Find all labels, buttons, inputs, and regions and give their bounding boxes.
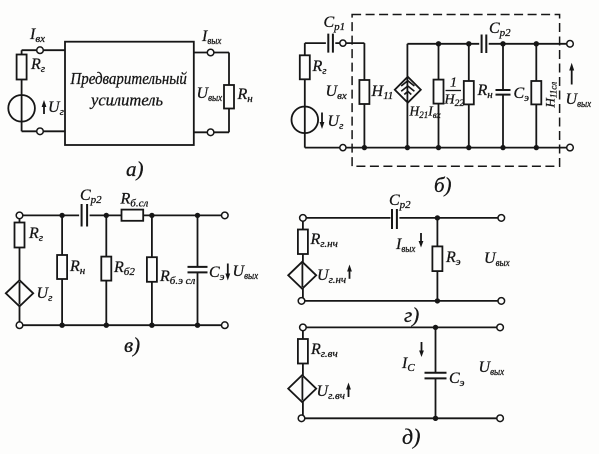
svg-text:Iвых: Iвых (201, 28, 221, 47)
current source chevrons (b) (401, 81, 414, 95)
terminal bottom-right (g) (498, 298, 505, 305)
terminal top-right (d) (497, 324, 504, 331)
svg-text:H11сл: H11сл (543, 82, 559, 109)
terminal bottom-right (d) (497, 415, 504, 422)
dashed box (b) (352, 15, 559, 167)
svg-text:Предварительный: Предварительный (70, 69, 188, 88)
terminal top-left (d) (300, 324, 307, 331)
capacitor Ce rail top (b) (502, 44, 504, 90)
source Ug circle (b) (292, 107, 319, 134)
bottom wire (g) (302, 300, 499, 302)
svg-text:Uвых: Uвых (484, 250, 510, 269)
svg-text:Rг.нч: Rг.нч (310, 231, 338, 250)
left rail (g) (302, 218, 304, 301)
resistor H11sl rail (b) (535, 44, 537, 148)
wire output top (a) (194, 52, 229, 54)
svg-text:б): б) (434, 173, 452, 197)
svg-text:1: 1 (450, 76, 457, 91)
junction dot top (d) (433, 325, 438, 330)
resistor Rg (a) (17, 55, 27, 80)
wire bottom rail (b) (305, 147, 567, 149)
resistor Rn rail (v) (61, 215, 63, 325)
terminal output bottom (a) (207, 129, 214, 136)
current source rail (b) (406, 44, 408, 148)
wire input top (a) (22, 49, 65, 51)
capacitor Cp2 (v) (82, 204, 88, 227)
capacitor Ce (b) (496, 90, 511, 95)
arrow down Ivyx (g) (420, 233, 422, 244)
svg-text:Rб.э сл: Rб.э сл (159, 268, 196, 287)
svg-text:Cр2: Cр2 (80, 187, 102, 206)
svg-text:Uг: Uг (328, 113, 345, 132)
wire input bottom (a) (22, 130, 65, 132)
svg-text:Uг: Uг (37, 285, 54, 304)
svg-text:Cр1: Cр1 (324, 14, 346, 33)
resistor Re rail (g) (436, 218, 438, 301)
current source diamond H21Ivx (b) (395, 77, 421, 103)
resistor Rb2 (v) (101, 257, 111, 281)
resistor Re (g) (432, 246, 442, 271)
source Ug circle (a) (8, 95, 35, 122)
svg-text:Uг.нч: Uг.нч (317, 267, 346, 286)
top wire right (g) (399, 217, 498, 219)
svg-text:Rэ: Rэ (445, 249, 461, 268)
resistor H11 (b) (359, 80, 369, 104)
svg-text:Uвых: Uвых (233, 263, 259, 282)
svg-text:Uг: Uг (48, 99, 65, 118)
terminal output top (a) (207, 49, 214, 56)
top wire segment 3 (v) (143, 214, 225, 216)
arrow down Ug (b) (321, 113, 323, 125)
wire output bottom (a) (194, 131, 229, 133)
svg-text:Rн: Rн (477, 82, 494, 101)
arrow up Ug (a) (43, 103, 45, 114)
junction dots bottom wire (v) (59, 323, 64, 328)
junction dot top (g) (435, 215, 440, 220)
wire input top (b) (305, 42, 326, 44)
resistor Rn rail (b) (468, 44, 470, 148)
capacitor Ce rail top (v) (197, 215, 199, 267)
junction dots top wire (b) (436, 41, 441, 46)
svg-text:Rн: Rн (69, 258, 86, 277)
resistor Rn (v) (57, 255, 67, 279)
svg-text:Uвых: Uвых (566, 91, 592, 110)
resistor 1/H22 (b) (434, 80, 444, 104)
svg-text:H22: H22 (444, 93, 465, 110)
terminal bottom-left (v) (16, 322, 23, 329)
junction dot bottom (d) (433, 416, 438, 421)
arrow down Ic (d) (421, 342, 423, 353)
junction dots top wire (v) (59, 213, 64, 218)
terminal top-right (v) (222, 212, 229, 219)
terminal top-left (v) (16, 212, 23, 219)
capacitor Ce rail bottom (d) (435, 378, 437, 418)
svg-text:Uвых: Uвых (479, 359, 505, 378)
capacitor Cp2 (g) (392, 209, 397, 229)
left rail (d) (302, 327, 304, 418)
terminal input bottom (b) (340, 145, 346, 151)
top wire (d) (303, 326, 497, 328)
svg-text:Rг: Rг (312, 58, 328, 77)
svg-text:IC: IC (401, 355, 415, 374)
inner top wire left of Cp2 (b) (407, 43, 479, 45)
capacitor Ce (d) (425, 373, 447, 379)
resistor Rb2 rail (v) (105, 215, 107, 325)
arrow up Uvyx (b) (571, 67, 573, 85)
resistor Rb.e.sl rail (v) (151, 215, 153, 325)
wire right rail (a) (228, 53, 230, 133)
source Ug.vch diamond (d) (288, 375, 316, 402)
terminal input bottom (a) (37, 128, 44, 135)
svg-text:Rб2: Rб2 (113, 259, 135, 278)
capacitor Cp1 (b) (328, 34, 333, 53)
inner top wire right of Cp2 (b) (489, 43, 567, 45)
bottom wire (v) (20, 324, 225, 326)
resistor H11 rail (b) (363, 43, 365, 148)
terminal bottom-left (d) (298, 415, 305, 422)
source Ug diamond (v) (6, 280, 33, 306)
wire left rail (b) (304, 43, 306, 148)
top wire segment 1 (v) (20, 214, 80, 216)
svg-text:H11: H11 (371, 83, 394, 102)
svg-text:Cэ: Cэ (514, 85, 530, 104)
resistor Rg (v) (15, 223, 25, 248)
svg-text:Iвх: Iвх (29, 26, 45, 45)
amplifier box (a) (65, 42, 194, 145)
terminal bottom-right (v) (222, 322, 229, 329)
wire left rail (a) (21, 50, 23, 131)
terminal input top (b) (340, 40, 346, 46)
resistor Rg (b) (300, 55, 310, 79)
top wire left (g) (303, 217, 391, 219)
capacitor Ce (v) (188, 267, 208, 273)
svg-text:в): в) (124, 333, 140, 357)
capacitor Ce rail top (d) (435, 327, 437, 372)
svg-text:Uвх: Uвх (326, 83, 347, 102)
svg-text:H21Iвх: H21Iвх (409, 104, 441, 121)
resistor Rn (a) (224, 85, 234, 109)
resistor Rn (b) (464, 81, 474, 104)
resistor Rg.vch (d) (298, 339, 308, 364)
top wire segment 2 (v) (90, 214, 122, 216)
capacitor Ce rail bottom (b) (502, 95, 504, 148)
svg-text:Cр2: Cр2 (489, 20, 511, 39)
svg-text:Uвых: Uвых (197, 85, 223, 104)
terminal bottom-left (g) (298, 298, 305, 305)
svg-text:Rн: Rн (237, 86, 254, 105)
resistor Rb.e.sl (v) (147, 257, 157, 282)
svg-text:Rг.вч: Rг.вч (310, 341, 338, 360)
svg-text:а): а) (126, 157, 144, 181)
arrow up Ug.nch (g) (349, 268, 351, 279)
terminal input top (a) (37, 47, 44, 54)
svg-text:д): д) (402, 424, 420, 449)
svg-text:Cэ: Cэ (209, 264, 225, 283)
svg-text:Iвых: Iвых (395, 236, 415, 255)
resistor 1/H22 rail (b) (438, 44, 440, 148)
arrow down Uvyx (v) (227, 264, 229, 276)
svg-text:Rг: Rг (30, 56, 46, 75)
svg-text:Rг: Rг (28, 225, 44, 244)
resistor Rg.nch (g) (298, 230, 308, 255)
arrow up Ug.vch (d) (348, 386, 350, 397)
svg-text:Cэ: Cэ (449, 370, 465, 389)
svg-text:Rб.сл: Rб.сл (120, 191, 149, 210)
junction dots bottom wire (b) (362, 145, 367, 150)
capacitor Cp2 (b) (482, 35, 487, 54)
terminal output bottom (b) (567, 144, 574, 151)
svg-text:усилитель: усилитель (89, 91, 163, 110)
terminal top-left (g) (300, 215, 307, 222)
resistor Rb.sl (v) (122, 210, 144, 221)
source Ug.nch diamond (g) (288, 262, 316, 289)
bottom wire (d) (302, 417, 498, 419)
wire cap to H11 (b) (335, 42, 364, 44)
left rail (v) (19, 215, 21, 325)
svg-text:Uг.вч: Uг.вч (317, 383, 345, 402)
svg-text:Cр2: Cр2 (389, 192, 411, 211)
svg-text:г): г) (404, 303, 419, 327)
junction dot bottom (g) (435, 298, 440, 303)
terminal output top (b) (567, 41, 574, 48)
capacitor Ce rail bottom (v) (197, 272, 199, 325)
terminal top-right (g) (498, 215, 505, 222)
resistor H11sl (b) (531, 81, 541, 104)
